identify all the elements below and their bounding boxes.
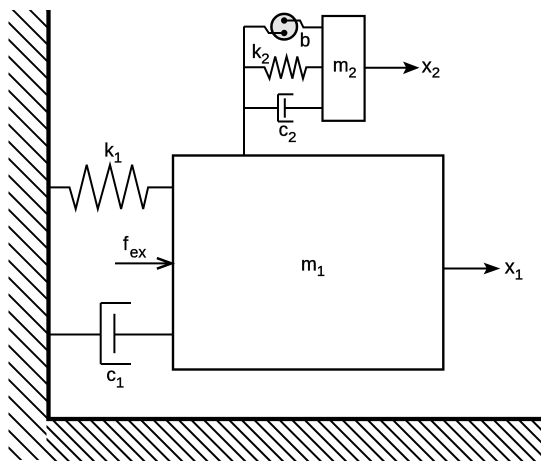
svg-text:b: b [300, 30, 311, 51]
